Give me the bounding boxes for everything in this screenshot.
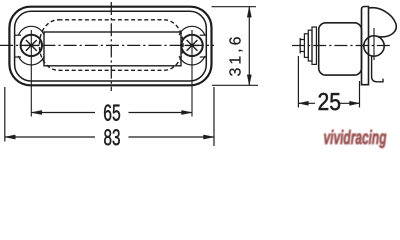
dimension 83 extension right [213,87,215,146]
dimension 31,6 extension top [212,6,257,8]
stud washer 2 [308,30,312,61]
dimension 83 left arrow [5,135,16,139]
left screw hole [21,35,42,56]
dimension 65 line [31,112,192,114]
right screw boss arcs [179,26,205,65]
dimension 31,6 top arrow [247,7,251,18]
left hole centerline / extension [30,30,32,117]
right screw boss ledge top [200,34,207,36]
dimension 25 right arrow [350,101,360,105]
svg-text:65: 65 [103,100,121,126]
stud washer 1 [304,34,308,58]
left screw boss arcs [18,26,44,65]
mounting flange (side view) [362,7,369,85]
stud shaft [300,40,304,52]
dimension 25 left arrow [298,101,308,105]
right screw hole star [185,40,200,51]
dimension 31,6 extension bottom [212,84,258,86]
left screw hole star [24,40,39,51]
svg-text:25: 25 [318,89,342,116]
lamp body (side view) [319,23,362,75]
svg-text:31,6: 31,6 [228,36,245,76]
dimension 31,6 bottom arrow [247,75,251,86]
horizontal centerline front view [0,44,214,46]
svg-text:83: 83 [104,125,121,150]
inner housing rim (front view) [15,11,207,81]
dimension 65 right arrow [182,110,193,114]
right screw hole [181,35,202,56]
outer housing outline (front view) [9,7,211,86]
stud washer 3 [312,27,316,64]
left screw boss ledge bottom [15,56,21,58]
right screw boss ledge bottom [200,56,207,58]
dimension 25 extension left [297,56,299,108]
dimension 31,6 line [248,7,250,86]
vertical centerline front view [110,2,112,91]
dimension 83 extension left [4,87,6,142]
dimension 83 right arrow [204,135,215,139]
dimension 65 left arrow [31,110,42,114]
side view centerline [292,45,391,47]
lens dome (side view) [369,8,397,37]
stud tip [299,38,301,53]
right hole centerline / extension [191,30,193,117]
side screw boss circle [364,36,384,56]
dimension 25 extension right [359,81,361,108]
hidden lens contour (dashed) [40,20,184,71]
dimension 83 line [5,136,214,138]
svg-text:vividracing: vividracing [324,127,387,149]
lens window rectangle [44,32,181,66]
dimension 25 line [298,102,359,104]
left screw boss ledge top [15,34,21,36]
side screw boss vertical centerline [373,28,375,60]
lens lower step (side view) [372,56,383,82]
